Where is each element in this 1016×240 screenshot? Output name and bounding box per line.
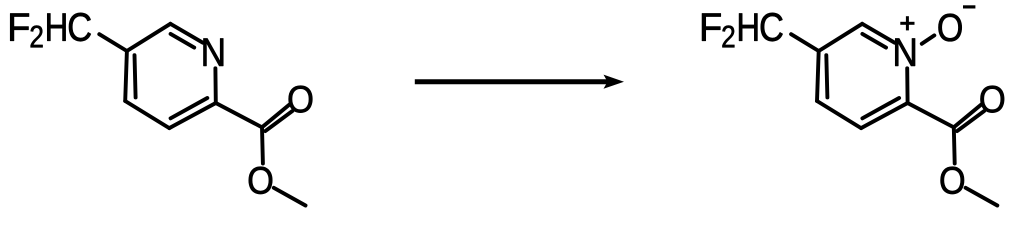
atom label F of F2HC group (left reactant) [10,14,29,41]
double bond C4=C5 inner line (right product ring) [826,55,827,97]
atom label O8 carbonyl oxygen (left reactant) [289,86,313,113]
bond N1-C2 (left reactant ring) [213,68,217,103]
atom label N1 pyridine nitrogen (left reactant) [204,39,224,66]
bond O9-C10 methyl bond (right product) [966,188,998,206]
bond CHF2-C5 (left reactant) [99,34,127,51]
atom label C of F2HC group (right product) [761,13,783,41]
atom label O9 ester oxygen (left reactant) [249,167,272,194]
double bond C2=C3 inner line (right product ring) [862,98,899,118]
bond O9-C10 methyl bond (left reactant) [274,188,306,206]
bond C7-O9 ester single bond (left reactant) [260,127,265,163]
charge plus on N1 vertical bar [906,16,909,30]
double bond C2=C3 outer line (left reactant ring) [169,103,216,128]
reaction arrow shaft [415,79,610,84]
double bond C6=N1 inner line (right product ring) [862,34,886,48]
atom label O8 carbonyl oxygen (right product) [980,86,1004,113]
double bond C4=C5 inner line (left reactant ring) [135,55,136,97]
reaction arrow head [604,75,625,89]
atom label O11 N-oxide oxygen [938,14,961,42]
bond N1-O11 N-oxide bond [922,35,935,43]
atom label F of F2HC group (right product) [702,14,721,41]
atom label N1 pyridine nitrogen (right product) [895,39,915,66]
atom label C of F2HC group (left reactant) [69,13,91,41]
bond N1-C2 (right product ring) [905,68,909,103]
double bond C2=C3 inner line (left reactant ring) [171,98,208,118]
double bond C7=O8 main line (right product carbonyl) [954,105,982,128]
bond C2-C7 to ester carbonyl (right product) [908,103,954,127]
subscript 2 of F2HC group (left reactant) [31,25,43,47]
subscript 2 of F2HC group (right product) [722,25,734,47]
charge plus on N1 horizontal bar [900,22,914,25]
bond CHF2-C5 (right product) [791,34,819,51]
double bond C6=N1 outer line (left reactant ring) [170,24,202,43]
atom label H of F2HC group (right product) [739,14,757,41]
atom label H of F2HC group (left reactant) [47,14,65,41]
double bond C6=N1 inner line (left reactant ring) [171,34,195,48]
charge minus on O11 [963,5,975,8]
double bond C4=C5 outer line (left reactant ring) [125,51,127,101]
double bond C7=O8 second line (left reactant carbonyl) [265,111,292,131]
bond C5-C6 (right product ring) [819,24,863,51]
double bond C6=N1 outer line (right product ring) [862,24,894,43]
double bond C7=O8 second line (right product carbonyl) [957,111,984,131]
double bond C2=C3 outer line (right product ring) [861,103,908,128]
bond C2-C7 to ester carbonyl (left reactant) [216,103,262,127]
bond C3-C4 (right product ring) [817,101,861,128]
atom label O9 ester oxygen (right product) [941,167,964,194]
bond C3-C4 (left reactant ring) [125,101,169,128]
bond C5-C6 (left reactant ring) [127,24,170,51]
bond C7-O9 ester single bond (right product) [952,127,957,163]
double bond C7=O8 main line (left reactant carbonyl) [262,105,290,128]
double bond C4=C5 outer line (right product ring) [817,51,819,101]
